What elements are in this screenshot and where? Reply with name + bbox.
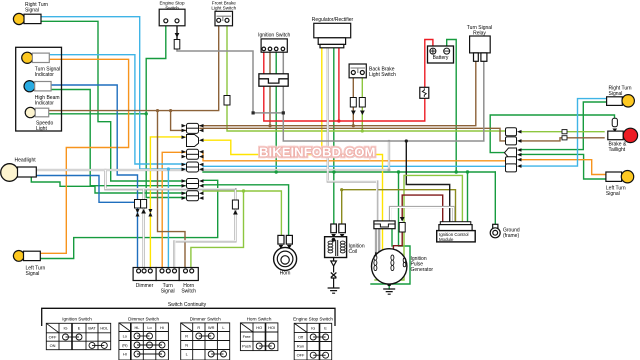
wire white dimmer drop bbox=[142, 189, 144, 268]
ignition control module bbox=[437, 222, 476, 242]
wire light-green connector R1 to brake taillight bbox=[520, 131, 604, 133]
svg-text:Coil: Coil bbox=[349, 249, 358, 255]
wire yellow dimmer switch to connector C2 bbox=[150, 137, 185, 268]
battery bbox=[428, 46, 454, 63]
indicator box bbox=[16, 47, 62, 131]
svg-text:BIKEINFOBD.COM: BIKEINFOBD.COM bbox=[259, 145, 376, 160]
wire brown main bus connector C1 to turn signal relay bbox=[200, 61, 476, 126]
svg-text:E: E bbox=[78, 326, 81, 331]
regulator rectifier bbox=[314, 23, 351, 48]
wire brown speedo bus front brake switch bbox=[49, 24, 219, 111]
wire dark-red ICM to pulse generator bbox=[402, 195, 443, 222]
svg-text:Run: Run bbox=[297, 344, 304, 349]
wire olive coil feed bbox=[342, 190, 456, 224]
svg-text:Ignition Switch: Ignition Switch bbox=[62, 317, 92, 322]
wire green ignition switch ground bbox=[275, 50, 277, 172]
inline connector on engine stop black wire bbox=[174, 33, 180, 49]
high beam indicator lamp bbox=[24, 81, 51, 92]
wire yellow connector C2 to ignition pulse generator bbox=[203, 140, 383, 258]
ground frame eyelet bbox=[490, 224, 500, 238]
ignition pulse generator bbox=[372, 221, 407, 284]
wire red ignition switch to battery via fuse bbox=[264, 40, 433, 122]
wire cyan connector C4 to connector R5 bbox=[203, 165, 506, 167]
front right turn signal lamp bbox=[13, 13, 41, 24]
svg-text:Engine Stop Switch: Engine Stop Switch bbox=[293, 317, 333, 322]
svg-text:Ignition Switch: Ignition Switch bbox=[258, 33, 290, 39]
wire brown back brake switch drop bbox=[352, 76, 354, 126]
front left turn signal lamp bbox=[13, 251, 40, 262]
svg-text:Signal: Signal bbox=[606, 191, 620, 197]
svg-text:Signal: Signal bbox=[25, 8, 39, 14]
wire white regulator to pulse generator bbox=[328, 47, 377, 222]
inline connector on turn-signal gray wire bbox=[232, 200, 238, 215]
junction dots bbox=[145, 112, 470, 286]
turn signal relay bbox=[470, 36, 491, 61]
svg-text:Push: Push bbox=[242, 343, 251, 348]
svg-text:Module: Module bbox=[439, 237, 454, 242]
inline connector on front brake light-green wire bbox=[224, 96, 230, 106]
svg-text:OFF: OFF bbox=[297, 353, 305, 358]
bullet connector C2 (pentagon) bbox=[182, 135, 204, 147]
svg-text:HO: HO bbox=[256, 325, 262, 330]
svg-text:Headlight: Headlight bbox=[15, 158, 37, 164]
svg-text:Horn: Horn bbox=[280, 271, 291, 277]
svg-text:IG: IG bbox=[311, 326, 315, 331]
svg-text:Generator: Generator bbox=[411, 267, 434, 273]
bullet connector R3 (pentagon) bbox=[505, 148, 522, 157]
svg-text:HL: HL bbox=[135, 325, 141, 330]
svg-text:(frame): (frame) bbox=[503, 233, 519, 239]
svg-text:ON: ON bbox=[50, 343, 56, 348]
svg-text:HOI: HOI bbox=[268, 325, 275, 330]
dark red pulse connector bbox=[399, 217, 405, 232]
wire green headlight to connector C6 bbox=[31, 177, 185, 194]
svg-text:Free: Free bbox=[243, 334, 251, 339]
svg-text:Signal: Signal bbox=[161, 289, 175, 295]
dimmer switch table 1 bbox=[119, 323, 168, 360]
wire black ICM feed bbox=[406, 141, 449, 222]
svg-text:HI: HI bbox=[123, 352, 127, 357]
rear left turn signal lamp bbox=[606, 171, 634, 183]
bullet connector R4 bbox=[506, 157, 522, 165]
wire green battery negative to bus bbox=[447, 40, 457, 173]
ignition coil bbox=[325, 224, 347, 258]
wire black engine stop connector bbox=[176, 23, 178, 39]
wire green bus to ground eyelet bbox=[494, 172, 496, 224]
svg-text:Dimmer Switch: Dimmer Switch bbox=[128, 317, 159, 322]
wire white ICM feeds bbox=[390, 207, 454, 222]
svg-text:Battery: Battery bbox=[433, 55, 449, 61]
spark plug bbox=[328, 258, 340, 294]
horn switch table bbox=[240, 323, 278, 351]
wire blue high beam indicator to dimmer switch bbox=[51, 85, 138, 268]
bullet connector R1 bbox=[506, 128, 522, 136]
wire green connector C5 to horn right bbox=[203, 185, 289, 236]
wire green speedo light to engine-stop green bbox=[49, 113, 147, 115]
inline connector on dimmer blue wire bbox=[135, 200, 141, 209]
svg-text:Hi: Hi bbox=[160, 325, 164, 330]
bullet connector R5 bbox=[506, 164, 522, 172]
wire light-green pulse generator inner loop bbox=[375, 175, 404, 280]
svg-text:WR: WR bbox=[208, 325, 215, 330]
bullet connector C3 bbox=[182, 149, 204, 159]
svg-text:Light Switch: Light Switch bbox=[369, 72, 396, 78]
wire light-green front brake switch to connector R1 bbox=[227, 24, 506, 131]
wire brown connector C1 to connector R2 bbox=[200, 128, 506, 141]
svg-text:Lo: Lo bbox=[147, 325, 151, 330]
svg-text:Signal: Signal bbox=[609, 91, 623, 97]
wire green pulse generator loop bbox=[371, 172, 410, 284]
wire red regulator drop bbox=[338, 47, 340, 121]
bullet connector C1 bbox=[182, 123, 204, 133]
svg-text:Regulator/Rectifier: Regulator/Rectifier bbox=[312, 17, 354, 23]
svg-text:Light: Light bbox=[36, 126, 47, 132]
svg-text:IG: IG bbox=[63, 326, 67, 331]
ignition switch bbox=[261, 39, 287, 52]
taillight bulb capsule bbox=[612, 118, 617, 132]
engine stop switch table bbox=[294, 323, 332, 360]
engine stop switch bbox=[159, 9, 185, 26]
svg-text:Switch Continuity: Switch Continuity bbox=[168, 302, 207, 308]
wire green pulse generator ground stub bbox=[388, 283, 390, 289]
svg-text:Indicator: Indicator bbox=[35, 72, 55, 78]
wire light-green connector C6 to horn left and horn switch bbox=[203, 191, 281, 236]
svg-text:R: R bbox=[185, 334, 188, 339]
wire green riser to rear right turn signal and connector R3 bbox=[490, 115, 614, 153]
bullet connector C6 bbox=[182, 191, 204, 201]
wire gray ignition switch to turn signal relay bbox=[283, 50, 484, 141]
svg-text:Indicator: Indicator bbox=[35, 101, 55, 107]
svg-text:N: N bbox=[185, 343, 188, 348]
svg-text:Horn Switch: Horn Switch bbox=[247, 317, 272, 322]
wire orange connector R4 to rear left turn signal bbox=[520, 160, 606, 175]
inline connectors on back brake wires bbox=[350, 98, 356, 108]
ignition switch connector block bbox=[259, 74, 288, 86]
wire brown connector R2 to brake taillight bbox=[520, 138, 604, 141]
turn signal indicator lamp bbox=[22, 52, 50, 63]
tiny rear connectors bbox=[562, 130, 567, 134]
wire green front right turn signal to connector C5 bbox=[41, 21, 185, 181]
back brake light switch bbox=[349, 64, 366, 78]
dimmer switch table 2 bbox=[181, 323, 230, 360]
wire brown ignition switch drop bbox=[269, 50, 271, 126]
wire green connector R3 to taillight capsule bbox=[520, 102, 607, 150]
bullet connector R2 bbox=[506, 137, 522, 145]
brake and taillight lamp bbox=[608, 128, 638, 142]
wire orange turn signal switch to connector C3 bbox=[162, 152, 185, 269]
bullet connector C5 bbox=[182, 179, 204, 189]
front brake light switch bbox=[215, 11, 233, 25]
wire cyan turn signal indicator to connector C4 bbox=[49, 55, 185, 164]
svg-text:Switch: Switch bbox=[165, 5, 179, 10]
svg-text:R: R bbox=[197, 325, 200, 330]
wire gray engine stop to ignition gray bbox=[177, 48, 484, 141]
wire blue headlight to dimmer blue bbox=[36, 176, 137, 203]
wire cyan turn signal switch riser bbox=[167, 169, 169, 269]
white outlined wires bbox=[36, 47, 453, 269]
inline arrows on dimmer yellow wire bbox=[148, 209, 152, 217]
wire green ground bus bbox=[203, 171, 495, 173]
fuse bbox=[420, 87, 429, 98]
wire orange turn signal indicator to front left turn signal bbox=[40, 59, 128, 253]
wire green connector C5 to front left turn signal bbox=[40, 180, 217, 258]
svg-text:Dimmer: Dimmer bbox=[136, 283, 154, 289]
speedo light lamp bbox=[25, 107, 48, 117]
svg-text:OFF: OFF bbox=[49, 335, 57, 340]
wire green high beam indicator to connector C5 bbox=[51, 90, 185, 186]
wire white turn signal switch drop bbox=[175, 189, 236, 269]
wire brown tap to connector C1 bbox=[171, 111, 186, 131]
svg-text:BAT: BAT bbox=[88, 326, 96, 331]
svg-text:HDL: HDL bbox=[100, 326, 109, 331]
svg-text:Dimmer Switch: Dimmer Switch bbox=[190, 317, 221, 322]
wire green ICM to bus bbox=[467, 172, 469, 222]
rear right turn signal lamp bbox=[607, 95, 635, 107]
svg-text:Lo: Lo bbox=[123, 334, 127, 339]
wire cyan connector R5 to rear right turn signal bbox=[520, 99, 607, 167]
svg-text:Switch: Switch bbox=[181, 289, 196, 295]
bracket bbox=[42, 308, 335, 326]
wire green connector R3 to rear left turn signal bbox=[520, 154, 606, 179]
wire light-green back brake switch to bus bbox=[361, 76, 363, 131]
wire white headlight to gray bus bbox=[36, 141, 389, 170]
wire light-green pulse to ICM bbox=[404, 175, 462, 221]
horn bbox=[274, 235, 297, 270]
svg-text:Relay: Relay bbox=[473, 31, 486, 37]
wire cyan front right turn signal to connector C4 bbox=[41, 17, 185, 169]
headlight bbox=[1, 164, 37, 182]
svg-text:Taillight: Taillight bbox=[609, 147, 626, 153]
wire green regulator to ignition coil bbox=[333, 47, 335, 225]
svg-text:Signal: Signal bbox=[26, 271, 40, 277]
dimmer / turn signal / horn switch housing bbox=[133, 268, 198, 281]
watermark bbox=[259, 145, 377, 162]
wire yellow regulator to coil jog bbox=[321, 47, 323, 155]
svg-text:E: E bbox=[324, 326, 327, 331]
wire brown horn switch drop bbox=[158, 111, 186, 269]
bullet connector C4 bbox=[182, 162, 204, 172]
wire green engine stop switch to connector C6 bbox=[146, 23, 185, 198]
ignition switch table bbox=[46, 323, 110, 349]
svg-text:Light Switch: Light Switch bbox=[211, 5, 236, 10]
inline connector on dimmer white wire bbox=[141, 200, 147, 214]
svg-text:(N): (N) bbox=[122, 343, 128, 348]
pulse generator ground bbox=[383, 289, 395, 294]
pulse generator coils bbox=[374, 252, 406, 271]
wire orange connector C3 to connector R4 bbox=[203, 152, 506, 161]
